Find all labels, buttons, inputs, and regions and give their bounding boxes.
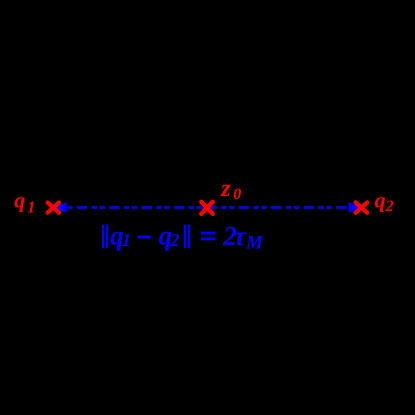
cross mark at q2: [356, 202, 368, 212]
label q1: [14, 188, 35, 217]
formula ||q1 - q2|| = 2 tau_M: [102, 221, 264, 254]
svg-text:q: q: [14, 188, 25, 213]
left arrowhead: [53, 202, 67, 213]
right arrowhead: [348, 202, 362, 213]
norm bars left: [102, 225, 104, 249]
label q2: [375, 188, 394, 215]
norm bars right: [184, 225, 186, 249]
cross mark at q1: [48, 203, 59, 213]
minus sign: [137, 236, 151, 239]
wire: dash-dot segment line between q1 and q2: [67, 206, 349, 209]
svg-text:z: z: [220, 176, 231, 202]
svg-text:0: 0: [233, 186, 241, 203]
svg-text:1: 1: [27, 198, 35, 217]
svg-text:2: 2: [385, 198, 394, 215]
svg-text:M: M: [245, 233, 264, 254]
svg-text:1: 1: [122, 230, 131, 250]
equals sign: [201, 232, 216, 235]
label z0: [220, 176, 241, 203]
svg-text:τ: τ: [234, 221, 247, 251]
cross mark at z0: [201, 202, 212, 214]
svg-text:q: q: [375, 188, 386, 213]
svg-text:2: 2: [169, 230, 179, 250]
